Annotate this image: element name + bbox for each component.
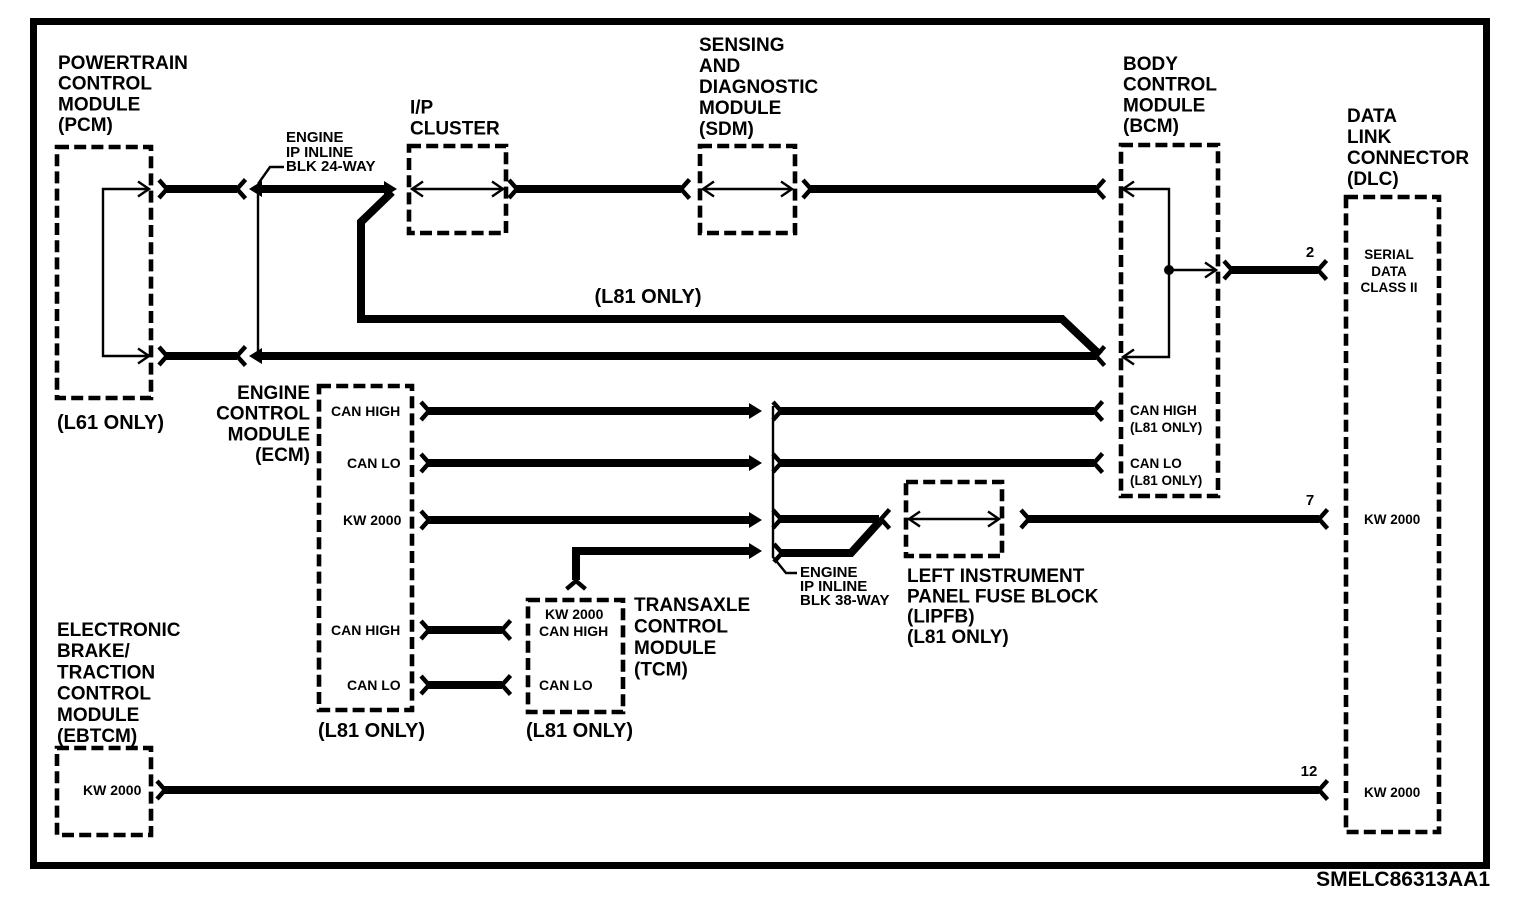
svg-text:LINK: LINK — [1347, 127, 1392, 148]
wire TCM KW 2000 riser — [567, 543, 763, 589]
wire 24-way connector to I/P cluster — [249, 181, 397, 197]
svg-text:CONTROL: CONTROL — [634, 617, 728, 638]
svg-text:(PCM): (PCM) — [58, 115, 113, 136]
wire ECM KW 2000 to 36-way connector — [421, 511, 762, 529]
svg-text:(TCM): (TCM) — [634, 660, 688, 681]
svg-text:TRANSAXLE: TRANSAXLE — [634, 595, 750, 616]
wire PCM to 24-way connector (bottom) — [159, 347, 246, 366]
svg-text:(L81 ONLY): (L81 ONLY) — [526, 720, 633, 742]
svg-text:(L81 ONLY): (L81 ONLY) — [907, 627, 1009, 648]
wire 36-way connector to BCM CAN HIGH — [773, 402, 1103, 421]
wire I/P cluster internal — [412, 182, 503, 197]
svg-text:MODULE: MODULE — [634, 638, 716, 659]
module ECM box — [319, 386, 412, 710]
svg-text:SENSING: SENSING — [699, 35, 785, 56]
wire BCM to DLC serial data — [1224, 261, 1327, 280]
svg-text:MODULE: MODULE — [58, 94, 140, 115]
svg-text:(L81 ONLY): (L81 ONLY) — [1130, 473, 1202, 488]
svg-text:CONTROL: CONTROL — [216, 404, 310, 425]
svg-text:CAN LO: CAN LO — [347, 455, 401, 471]
svg-text:LEFT INSTRUMENT: LEFT INSTRUMENT — [907, 566, 1085, 587]
wire LIPFB to DLC (KW 2000) — [1021, 510, 1328, 529]
wire ECM CAN HIGH to 36-way connector — [421, 402, 762, 420]
module BCM box — [1121, 145, 1218, 496]
svg-text:CAN LO: CAN LO — [347, 677, 401, 693]
svg-text:BRAKE/: BRAKE/ — [57, 641, 131, 662]
svg-text:ELECTRONIC: ELECTRONIC — [57, 620, 181, 641]
wire ECM to TCM CAN HIGH — [421, 621, 511, 640]
svg-text:DATA: DATA — [1371, 264, 1407, 279]
svg-text:SERIAL: SERIAL — [1364, 247, 1414, 262]
wire LIPFB internal — [909, 512, 999, 527]
svg-text:MODULE: MODULE — [228, 424, 310, 445]
svg-text:CONNECTOR: CONNECTOR — [1347, 148, 1469, 169]
svg-text:I/P: I/P — [410, 98, 434, 119]
svg-text:CONTROL: CONTROL — [57, 684, 151, 705]
svg-text:ENGINE: ENGINE — [237, 383, 310, 404]
module SDM box — [700, 146, 795, 233]
wire SDM internal — [703, 182, 792, 197]
svg-text:CLUSTER: CLUSTER — [410, 119, 500, 140]
svg-text:MODULE: MODULE — [1123, 95, 1205, 116]
svg-text:(L81 ONLY): (L81 ONLY) — [594, 286, 701, 308]
wire 24-way connector to BCM (bottom) — [249, 347, 1105, 366]
svg-text:KW 2000: KW 2000 — [83, 782, 142, 798]
svg-text:MODULE: MODULE — [57, 705, 139, 726]
wire ECM to TCM CAN LO — [421, 676, 511, 695]
wire PCM to 24-way connector (top) — [159, 180, 246, 199]
wire I/P cluster to SDM — [509, 180, 690, 199]
junction dot in BCM — [1164, 265, 1174, 275]
module EBTCM box — [57, 748, 151, 835]
svg-text:(L81 ONLY): (L81 ONLY) — [1130, 420, 1202, 435]
svg-text:(DLC): (DLC) — [1347, 169, 1399, 190]
svg-text:(BCM): (BCM) — [1123, 116, 1179, 137]
wire PCM internal loop — [103, 182, 149, 364]
wire SDM to BCM (top) — [803, 180, 1105, 199]
module PCM box — [57, 147, 151, 398]
svg-text:CAN HIGH: CAN HIGH — [331, 622, 400, 638]
svg-text:12: 12 — [1301, 763, 1318, 780]
wire 36-way connector to BCM CAN LO — [773, 454, 1103, 473]
wire TCM branch right of connector (diagonal) — [774, 521, 880, 562]
svg-text:POWERTRAIN: POWERTRAIN — [58, 53, 188, 74]
module I/P cluster box — [409, 146, 506, 233]
svg-text:(LIPFB): (LIPFB) — [907, 607, 975, 628]
svg-text:BODY: BODY — [1123, 54, 1178, 75]
svg-text:2: 2 — [1306, 244, 1314, 261]
svg-text:(ECM): (ECM) — [255, 445, 310, 466]
svg-text:BLK 38-WAY: BLK 38-WAY — [800, 592, 889, 609]
svg-text:7: 7 — [1306, 492, 1314, 509]
svg-text:CONTROL: CONTROL — [1123, 75, 1217, 96]
svg-text:KW 2000: KW 2000 — [1364, 512, 1420, 527]
svg-text:CONTROL: CONTROL — [58, 74, 152, 95]
svg-text:KW 2000: KW 2000 — [545, 606, 604, 622]
svg-text:TRACTION: TRACTION — [57, 662, 155, 683]
svg-text:CLASS II: CLASS II — [1360, 280, 1417, 295]
svg-text:(SDM): (SDM) — [699, 119, 754, 140]
svg-text:MODULE: MODULE — [699, 98, 781, 119]
svg-text:DIAGNOSTIC: DIAGNOSTIC — [699, 77, 819, 98]
svg-text:SMELC86313AA1: SMELC86313AA1 — [1316, 868, 1490, 891]
svg-text:CAN LO: CAN LO — [1130, 456, 1182, 471]
module DLC box — [1346, 197, 1439, 832]
svg-text:CAN HIGH: CAN HIGH — [331, 403, 400, 419]
svg-text:CAN LO: CAN LO — [539, 677, 593, 693]
wire 36-way connector to LIPFB (KW 2000) — [773, 510, 890, 529]
module LIPFB box — [906, 482, 1002, 556]
wire L81 only branch (diagonal-vertical-horizontal) — [361, 192, 1100, 355]
svg-text:(EBTCM): (EBTCM) — [57, 726, 137, 747]
svg-text:DATA: DATA — [1347, 106, 1397, 127]
svg-text:KW 2000: KW 2000 — [343, 512, 402, 528]
svg-text:BLK 24-WAY: BLK 24-WAY — [286, 158, 375, 175]
inline connector BLK 24-WAY line — [258, 167, 284, 360]
svg-text:(L81 ONLY): (L81 ONLY) — [318, 720, 425, 742]
svg-text:KW 2000: KW 2000 — [1364, 785, 1420, 800]
wire EBTCM to DLC KW 2000 — [157, 781, 1328, 800]
svg-text:PANEL FUSE BLOCK: PANEL FUSE BLOCK — [907, 586, 1099, 607]
inline connector BLK 36-WAY line — [773, 406, 797, 573]
svg-text:(L61 ONLY): (L61 ONLY) — [57, 412, 164, 434]
wire ECM CAN LO to 36-way connector — [421, 454, 762, 472]
svg-text:CAN HIGH: CAN HIGH — [1130, 403, 1197, 418]
module TCM box — [528, 600, 623, 712]
svg-text:CAN HIGH: CAN HIGH — [539, 623, 608, 639]
wire BCM internal — [1123, 182, 1216, 365]
svg-text:AND: AND — [699, 56, 740, 77]
